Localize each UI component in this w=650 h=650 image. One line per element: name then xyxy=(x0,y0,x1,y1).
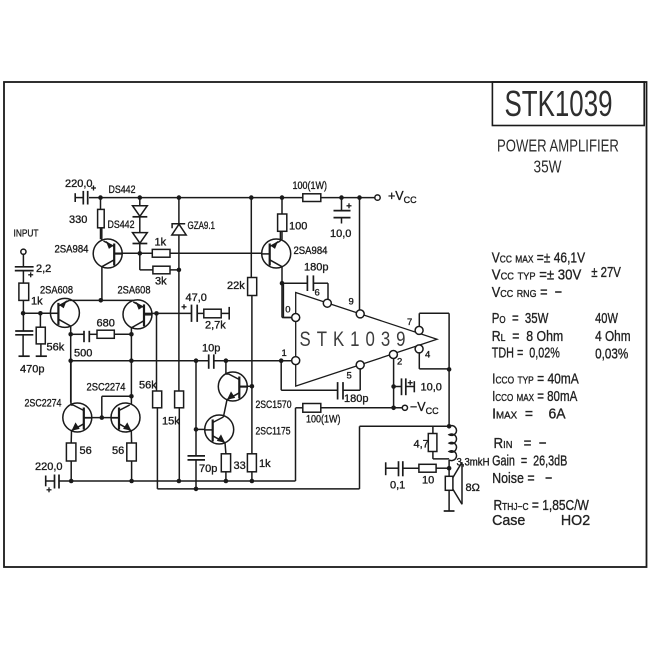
inductor L1 3,3mkH xyxy=(449,426,456,461)
svg-text:2SA608: 2SA608 xyxy=(40,284,73,296)
spec Po 40W xyxy=(595,309,618,326)
svg-text:DS442: DS442 xyxy=(108,219,135,231)
spec Imax xyxy=(492,406,566,423)
label STK1039 inside xyxy=(300,328,412,351)
svg-text:PO = 35W: PO = 35W xyxy=(492,309,549,326)
terminal -Vcc xyxy=(402,405,407,410)
resistor R4 100 xyxy=(281,198,283,214)
wire Q8 base xyxy=(196,428,205,430)
capacitor C3 180p xyxy=(282,282,307,284)
diode D1 DS442 xyxy=(139,198,141,206)
spec Case HO2 xyxy=(492,513,590,529)
wire pin1 rail xyxy=(71,360,209,362)
capacitor C11 10,0 xyxy=(394,386,402,388)
capacitor C9 70p xyxy=(188,455,206,457)
wire coil to output node xyxy=(448,460,450,476)
svg-text:10,0: 10,0 xyxy=(421,382,442,394)
svg-text:+VCC: +VCC xyxy=(388,189,417,205)
svg-text:2SA984: 2SA984 xyxy=(55,243,89,255)
svg-text:0,1: 0,1 xyxy=(390,480,405,492)
svg-text:0: 0 xyxy=(285,305,290,316)
node 3k-zener junction xyxy=(177,268,182,273)
svg-text:56: 56 xyxy=(80,445,92,457)
svg-text:RIN = −: RIN = − xyxy=(494,435,547,452)
svg-text:180p: 180p xyxy=(304,262,328,274)
resistor R10 22k xyxy=(250,198,252,278)
spec Icco typ xyxy=(492,370,580,387)
spec TDH 0,03% xyxy=(595,345,628,362)
pin 2 xyxy=(389,351,397,359)
resistor R19 10 xyxy=(419,464,436,472)
node diode-base junction xyxy=(138,251,143,256)
node input junctions xyxy=(21,311,26,316)
svg-text:−VCC: −VCC xyxy=(410,400,439,416)
resistor R12 1k xyxy=(247,454,256,472)
spec Po 35W xyxy=(492,309,549,326)
pin 9 xyxy=(356,310,364,318)
svg-text:33: 33 xyxy=(234,460,246,472)
node 500 row junctions xyxy=(68,332,73,337)
wire Q7-Q8 link xyxy=(223,400,227,417)
svg-text:STK1039: STK1039 xyxy=(300,328,412,351)
svg-text:100(1W): 100(1W) xyxy=(293,180,328,192)
svg-text:220,0: 220,0 xyxy=(35,461,63,473)
svg-text:2SC2274: 2SC2274 xyxy=(25,398,62,410)
wire emitter rail xyxy=(69,299,133,301)
node Q7 base junction xyxy=(250,384,255,389)
svg-text:2SC1570: 2SC1570 xyxy=(256,399,292,411)
svg-text:RTHJ−C = 1,85C/W: RTHJ−C = 1,85C/W xyxy=(494,497,590,514)
resistor R16 56 xyxy=(127,443,137,461)
wire pin7 feedback box xyxy=(418,313,420,326)
transistor Q2 2SA984 xyxy=(262,239,291,268)
wire 3k row xyxy=(140,269,179,271)
svg-text:4: 4 xyxy=(425,350,430,361)
svg-text:2,2: 2,2 xyxy=(36,263,51,275)
node Q6 collector tie xyxy=(129,394,134,399)
wire rail A up xyxy=(295,408,297,481)
resistor R9 2,7k xyxy=(204,309,221,318)
wire pin9 from rail xyxy=(359,198,361,310)
svg-text:15k: 15k xyxy=(162,416,180,428)
wire Q1 collector down xyxy=(101,267,103,301)
svg-text:0,03%: 0,03% xyxy=(595,345,628,362)
node Q8 base junction xyxy=(194,427,199,432)
pin 7 xyxy=(415,326,423,334)
svg-text:500: 500 xyxy=(74,348,92,360)
svg-text:± 27V: ± 27V xyxy=(591,263,621,280)
resistor R18 4,7 xyxy=(432,426,434,433)
node rail A junctions xyxy=(69,479,74,484)
spec RL 8 Ohm xyxy=(492,328,563,344)
svg-text:VCC RNG = −: VCC RNG = − xyxy=(492,283,562,300)
resistor R5 100(1W) xyxy=(303,194,321,202)
spec TDH xyxy=(492,344,560,361)
resistor R6 1k xyxy=(19,283,29,300)
wire pin5 to 180p xyxy=(359,369,361,390)
svg-text:1: 1 xyxy=(282,348,287,359)
wire rail B xyxy=(157,488,359,490)
transistor Q7 2SC1570 xyxy=(218,372,247,401)
svg-text:10: 10 xyxy=(422,475,434,487)
spec Vcc typ xyxy=(492,266,582,283)
svg-text:70p: 70p xyxy=(199,463,217,475)
svg-text:100: 100 xyxy=(289,221,307,233)
capacitor C1 220,0 top-left xyxy=(76,197,83,199)
wire 56k2 vertical xyxy=(156,313,158,391)
svg-text:POWER AMPLIFIER: POWER AMPLIFIER xyxy=(497,137,619,156)
title box STK1039 xyxy=(492,82,644,126)
spec RL 4 Ohm xyxy=(595,328,631,345)
svg-text:2: 2 xyxy=(397,357,402,368)
svg-text:10p: 10p xyxy=(202,343,220,355)
diode D2 DS442 xyxy=(139,217,141,233)
node output box junction xyxy=(447,367,452,372)
subtitle POWER AMPLIFIER xyxy=(497,137,619,156)
svg-text:2SA984: 2SA984 xyxy=(294,245,328,257)
svg-text:STK1039: STK1039 xyxy=(505,84,613,124)
svg-text:Case HO2: Case HO2 xyxy=(492,513,590,529)
spec Vcc max xyxy=(492,249,585,266)
svg-text:2SA608: 2SA608 xyxy=(118,284,151,296)
capacitor C10 220,0 xyxy=(45,476,47,487)
wire 196 vertical xyxy=(195,361,197,456)
wire top +Vcc rail xyxy=(89,197,375,199)
wire Q4 base branch xyxy=(144,312,157,314)
capacitor C7 47,0 xyxy=(157,312,192,314)
svg-text:6: 6 xyxy=(315,288,320,299)
wire pin4 down xyxy=(418,353,420,369)
svg-text:4 Ohm: 4 Ohm xyxy=(595,328,631,345)
wire Q1 emitter up xyxy=(101,228,103,241)
svg-text:180p: 180p xyxy=(344,393,368,405)
resistor R13 56k xyxy=(153,391,162,408)
svg-text:4,7: 4,7 xyxy=(414,439,429,451)
capacitor C6 500 xyxy=(71,333,84,335)
terminal +Vcc xyxy=(375,195,380,200)
op-amp U1 STK1039 xyxy=(296,293,437,387)
svg-text:1k: 1k xyxy=(155,237,167,249)
spec Icco max xyxy=(492,387,577,404)
transistor Q3 2SA608 xyxy=(50,298,79,327)
resistor R2 1k xyxy=(152,249,170,257)
speaker LS1 8ohm xyxy=(445,476,453,490)
spec Vcc rng xyxy=(492,283,562,300)
svg-text:56k: 56k xyxy=(139,379,157,391)
wire coil top row xyxy=(360,425,450,427)
transistor Q5 2SC2274 xyxy=(63,403,92,432)
svg-text:47,0: 47,0 xyxy=(186,292,207,304)
svg-text:VCC TYP =± 30V: VCC TYP =± 30V xyxy=(492,266,582,283)
svg-text:220,0: 220,0 xyxy=(65,178,93,190)
transistor Q1 2SA984 xyxy=(93,239,122,268)
spec Rin xyxy=(494,435,547,452)
capacitor C8 10p xyxy=(208,354,210,368)
border frame xyxy=(4,82,647,567)
svg-text:GZA9.1: GZA9.1 xyxy=(188,220,216,232)
transistor Q6 2SC2274 xyxy=(111,403,140,432)
ground speaker xyxy=(444,510,455,512)
wire Q7 base xyxy=(239,385,252,387)
transistor Q8 2SC1175 xyxy=(205,415,234,444)
pin 1 xyxy=(292,357,300,365)
transistor Q4 2SA608 xyxy=(123,300,152,329)
pin 4 xyxy=(415,345,423,353)
capacitor C12 180p xyxy=(337,382,339,399)
svg-text:10,0: 10,0 xyxy=(330,228,351,240)
svg-text:ICCO MAX = 80mA: ICCO MAX = 80mA xyxy=(492,387,577,404)
node coil top junction xyxy=(447,424,452,429)
wire pin0 branch xyxy=(283,317,291,319)
diode D3 zener GZA9.1 xyxy=(178,198,180,224)
wire Q7 collector up xyxy=(226,373,229,375)
resistor R3 3k xyxy=(153,266,170,274)
wire Q2 emitter up xyxy=(279,231,281,241)
wire input row xyxy=(23,312,58,314)
capacitor C13 0,1 xyxy=(385,462,387,475)
resistor R1 330 xyxy=(100,198,102,210)
svg-text:INPUT: INPUT xyxy=(14,227,39,239)
svg-text:8Ω: 8Ω xyxy=(466,482,480,494)
node output junction xyxy=(447,466,452,471)
wire Q4 collector down xyxy=(130,328,132,405)
resistor R15 56 xyxy=(66,443,76,461)
node base-56k junction xyxy=(154,311,159,316)
svg-text:22k: 22k xyxy=(227,280,245,292)
resistor R7 56k xyxy=(39,313,41,327)
subtitle 35W xyxy=(534,158,562,177)
node Q2-180p junction xyxy=(280,281,285,286)
svg-text:680: 680 xyxy=(97,318,115,330)
wire Q5 collector up xyxy=(71,404,73,406)
svg-text:3k: 3k xyxy=(155,276,167,288)
svg-text:2SC1175: 2SC1175 xyxy=(256,426,291,438)
svg-text:56k: 56k xyxy=(47,342,65,354)
wire ground rail A xyxy=(59,480,296,482)
node rail B junction xyxy=(194,487,199,492)
svg-text:100(1W): 100(1W) xyxy=(306,414,341,426)
wire Q6 emitter down xyxy=(130,431,132,443)
capacitor C2 10,0 xyxy=(341,198,343,211)
svg-text:56: 56 xyxy=(112,445,124,457)
pin 6 xyxy=(323,299,331,307)
svg-text:330: 330 xyxy=(69,214,87,226)
terminal input xyxy=(21,249,26,254)
capacitor C5 470p xyxy=(15,330,33,332)
svg-text:7: 7 xyxy=(407,317,412,328)
wire Q8 emitter down xyxy=(224,443,227,454)
svg-text:VCC MAX =± 46,1V: VCC MAX =± 46,1V xyxy=(492,249,585,266)
resistor R8 680 xyxy=(97,330,114,338)
svg-text:TDH = 0,02%: TDH = 0,02% xyxy=(492,344,560,361)
spec Rthj-c xyxy=(494,497,590,514)
node pin2 cap junction xyxy=(391,384,396,389)
svg-text:2SC2274: 2SC2274 xyxy=(87,381,126,393)
wire Q2 collector down xyxy=(281,267,283,318)
pin 0 xyxy=(292,314,300,322)
spec Gain xyxy=(492,452,567,469)
svg-text:470p: 470p xyxy=(20,364,44,376)
svg-text:ICCO TYP = 40mA: ICCO TYP = 40mA xyxy=(492,370,580,387)
svg-text:40W: 40W xyxy=(595,309,618,326)
wire rail B up xyxy=(359,426,361,489)
wire base tie row xyxy=(84,417,119,419)
svg-text:1k: 1k xyxy=(31,296,43,308)
svg-text:5: 5 xyxy=(347,371,352,382)
wire output vertical xyxy=(448,369,450,428)
wire Q3 collector down xyxy=(70,326,72,403)
wire pin2 down xyxy=(393,359,395,408)
svg-text:Gain = 26,3dB: Gain = 26,3dB xyxy=(492,452,567,469)
svg-text:35W: 35W xyxy=(534,158,562,177)
wire base jog xyxy=(101,396,103,417)
spec Noise xyxy=(492,470,552,486)
wire -Vcc row xyxy=(296,407,303,409)
svg-text:2,7k: 2,7k xyxy=(205,320,226,332)
resistor R14 15k xyxy=(175,391,184,408)
node pin1 rail junctions xyxy=(68,358,73,363)
pin 5 xyxy=(356,361,364,369)
svg-text:RL = 8 Ohm: RL = 8 Ohm xyxy=(492,328,563,344)
node -Vcc row junction xyxy=(391,406,396,411)
wire bias row xyxy=(114,252,262,254)
node top rail junctions xyxy=(98,195,103,200)
svg-text:1k: 1k xyxy=(259,458,271,470)
spec plus-minus 27V xyxy=(591,263,621,280)
svg-text:IMAX = 6A: IMAX = 6A xyxy=(492,406,566,423)
wire Q5 emitter down xyxy=(70,431,72,443)
svg-text:Noise = −: Noise = − xyxy=(492,470,552,486)
svg-text:9: 9 xyxy=(349,297,354,308)
resistor R11 33 xyxy=(221,454,230,472)
capacitor C4 2,2 xyxy=(22,254,24,266)
node base tie junction xyxy=(100,415,105,420)
node emitter rail junction xyxy=(99,298,104,303)
svg-text:DS442: DS442 xyxy=(109,184,136,196)
